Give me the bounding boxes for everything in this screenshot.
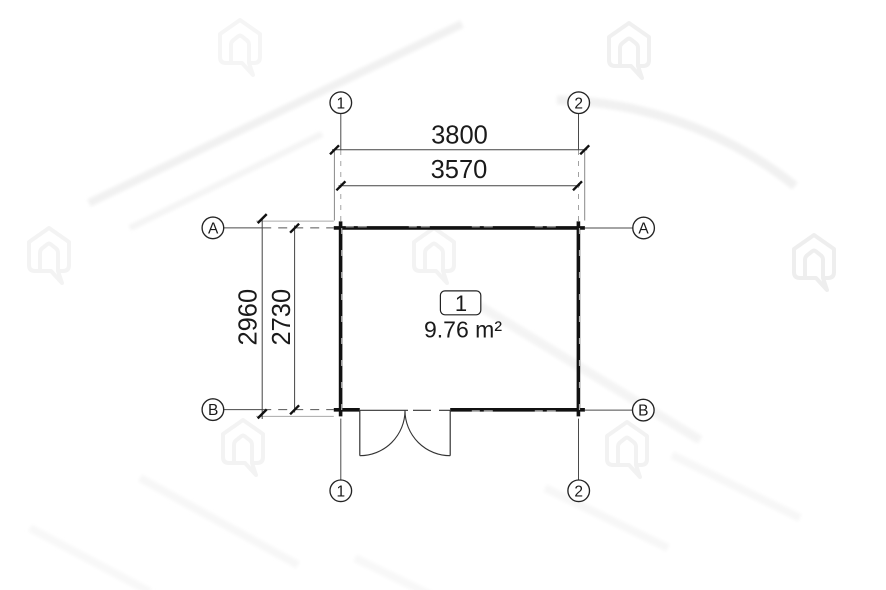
svg-text:2: 2 <box>574 483 583 500</box>
tick 2730 bottom <box>290 405 299 414</box>
dimension line 3570 <box>339 185 581 187</box>
watermark logo left <box>29 228 69 283</box>
watermark logo bottom-left <box>223 420 263 475</box>
grid bubble 1 bottom <box>330 480 352 502</box>
door left leaf <box>359 411 361 456</box>
watermark diagonal band bottom-right <box>478 305 700 440</box>
watermark diagonal band bottom-center <box>355 558 445 590</box>
svg-text:1: 1 <box>336 483 345 500</box>
watermark diagonal band bottom-right3 <box>672 455 800 518</box>
grid line B horizontal dashed <box>262 409 334 411</box>
door right swing arc <box>405 411 450 456</box>
door left swing arc <box>360 411 405 456</box>
svg-text:2: 2 <box>574 95 583 112</box>
tick 3800 right <box>580 145 589 154</box>
tick 2960 bottom <box>258 409 267 418</box>
grid bubble A right <box>633 217 655 239</box>
tick 3570 right <box>573 181 582 190</box>
wall right log dashes <box>579 228 581 414</box>
dimension line 3800 <box>332 149 587 151</box>
extension line 2960 top <box>256 220 334 222</box>
watermark logo bottom-center <box>607 422 647 477</box>
wall right <box>577 221 581 416</box>
grid line 1 vertical top segment <box>340 113 342 150</box>
watermark diagonal band bottom-right2 <box>545 488 668 548</box>
grid line 2 vertical bottom segment <box>578 419 580 481</box>
tick 2960 top <box>258 214 267 223</box>
wall bottom log dashes <box>450 410 585 412</box>
watermark logo center <box>414 228 454 283</box>
wall bottom right segment <box>450 408 585 412</box>
dimension line 2960 <box>261 219 263 420</box>
svg-text:B: B <box>638 403 648 420</box>
extension line 3800 right <box>584 150 586 221</box>
svg-text:A: A <box>638 221 649 238</box>
svg-text:9.76 m²: 9.76 m² <box>424 317 502 343</box>
grid line 2 vertical top segment <box>578 113 580 150</box>
watermark diagonal band top-left <box>89 24 462 203</box>
dimension line 2730 <box>294 226 296 413</box>
grid line 1 vertical dashed to wall <box>340 150 342 221</box>
grid bubble 1 top <box>330 92 352 114</box>
door right leaf <box>449 411 451 456</box>
extension line 3800 left <box>333 150 335 221</box>
svg-text:1: 1 <box>336 95 345 112</box>
grid bubble B right <box>633 399 655 421</box>
svg-text:3800: 3800 <box>431 122 488 150</box>
tick 2730 top <box>290 224 299 233</box>
tick 3800 left <box>330 145 339 154</box>
wall bottom left segment <box>334 408 360 412</box>
svg-text:2730: 2730 <box>268 289 296 346</box>
watermark diagonal band top-left inner <box>130 134 322 228</box>
grid line B horizontal right <box>585 409 633 411</box>
wall left log dashes <box>341 228 343 414</box>
grid bubble B left <box>202 399 224 421</box>
grid line A horizontal left solid <box>223 227 262 229</box>
grid line 2 vertical dashed to wall <box>578 150 580 221</box>
grid bubble 2 top <box>568 92 590 114</box>
watermark logo right <box>794 235 834 290</box>
grid line A horizontal dashed <box>262 227 334 229</box>
wall left <box>339 221 343 416</box>
watermark diagonal band bottom-left2 <box>30 528 150 590</box>
watermark diagonal band top-right <box>557 100 795 186</box>
door threshold dashes <box>413 409 450 411</box>
grid bubble 2 bottom <box>568 480 590 502</box>
watermark logo top-center <box>609 23 649 78</box>
svg-text:B: B <box>208 402 218 419</box>
watermark logo top-left <box>220 20 260 75</box>
grid bubble A left <box>202 217 224 239</box>
door threshold line <box>360 409 408 411</box>
tick 3570 left <box>336 181 345 190</box>
svg-text:1: 1 <box>455 291 467 316</box>
room label box <box>440 291 480 315</box>
svg-text:3570: 3570 <box>431 156 488 184</box>
wall top <box>334 226 585 230</box>
svg-text:2960: 2960 <box>234 289 262 346</box>
grid line B horizontal left solid <box>223 409 262 411</box>
wall top log dashes <box>334 226 585 228</box>
svg-text:A: A <box>208 221 219 238</box>
grid line A horizontal right <box>585 227 633 229</box>
watermark diagonal band bottom-left <box>140 478 298 565</box>
extension line 2960 bottom <box>256 415 334 417</box>
grid line 1 vertical bottom segment <box>340 419 342 481</box>
